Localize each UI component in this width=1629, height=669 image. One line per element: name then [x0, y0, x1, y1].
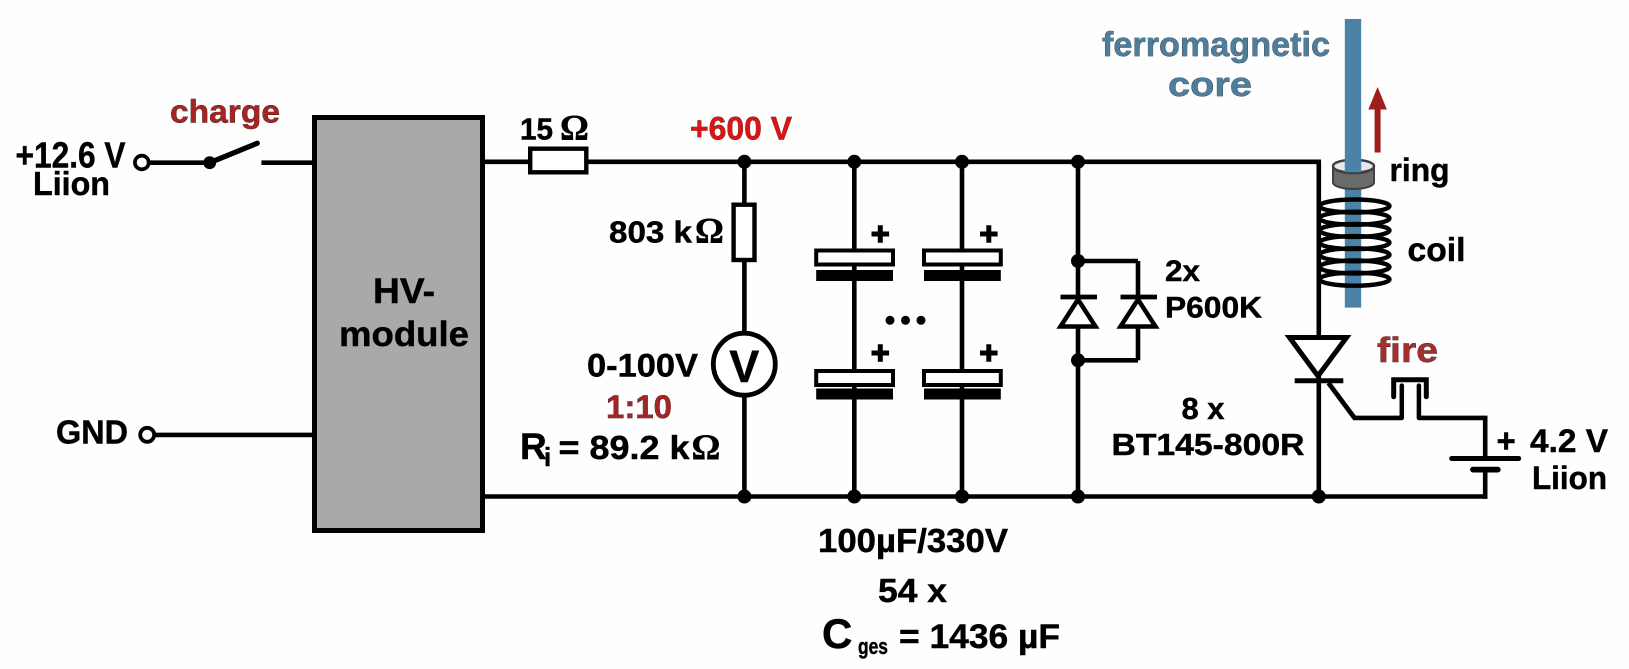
- terminal GND: [140, 428, 154, 442]
- svg-text:R: R: [520, 426, 547, 467]
- arrow up (launch direction): [1368, 87, 1387, 153]
- wire gate to button left contact: [1353, 416, 1402, 421]
- wire capacitor column 1: [852, 162, 857, 497]
- svg-text:V: V: [729, 341, 759, 392]
- resistor 15 Ohm: [530, 149, 586, 173]
- svg-text:803 k: 803 k: [609, 215, 693, 250]
- wire voltmeter branch vertical: [742, 162, 747, 497]
- switch S1 charge: [203, 143, 257, 169]
- wire thyristor branch vertical: [1317, 162, 1322, 497]
- svg-text:module: module: [339, 315, 469, 354]
- svg-text:C: C: [822, 610, 852, 657]
- svg-text:P600K: P600K: [1165, 292, 1262, 325]
- diode D1: [1061, 297, 1098, 327]
- node bottom rail cap2: [955, 490, 969, 504]
- svg-text:Ω: Ω: [695, 211, 724, 251]
- node top rail cap2: [955, 155, 969, 169]
- wire switch to HV-module: [261, 160, 316, 165]
- svg-text:coil: coil: [1408, 231, 1466, 268]
- HV-module U1: [315, 118, 483, 531]
- svg-text:4.2 V: 4.2 V: [1530, 423, 1609, 459]
- wire button right contact to battery: [1419, 418, 1485, 456]
- push button fire: [1394, 380, 1427, 418]
- capacitor C1: [816, 225, 893, 281]
- svg-text:GND: GND: [56, 414, 128, 451]
- thyristor Q1: [1290, 338, 1355, 418]
- svg-text:1:10: 1:10: [606, 389, 672, 425]
- svg-text:2x: 2x: [1165, 255, 1200, 288]
- svg-text:ges: ges: [858, 634, 888, 659]
- dots ellipsis: [886, 316, 926, 325]
- svg-text:BT145-800R: BT145-800R: [1112, 427, 1305, 462]
- svg-text:8 x: 8 x: [1182, 391, 1226, 426]
- wire top rail: [482, 160, 1321, 165]
- wire bottom rail: [482, 494, 1487, 499]
- label + 4.2 V Liion: [1497, 422, 1609, 496]
- svg-text:Liion: Liion: [1532, 460, 1607, 496]
- svg-text:i: i: [544, 442, 551, 472]
- ring top ellipse: [1333, 160, 1374, 173]
- svg-text:= 89.2 k: = 89.2 k: [559, 429, 691, 466]
- svg-text:charge: charge: [170, 94, 280, 130]
- label 8 x BT145-800R: [1112, 391, 1305, 462]
- label Ri = 89.2 kOhm: [520, 426, 720, 472]
- svg-text:core: core: [1168, 66, 1252, 104]
- node top rail diode branch: [1071, 155, 1085, 169]
- wire capacitor column 2: [960, 162, 965, 497]
- ring body: [1333, 167, 1374, 189]
- ferromagnetic core bar: [1345, 19, 1361, 308]
- svg-text:0-100V: 0-100V: [587, 348, 699, 384]
- svg-text:= 1436 µF: = 1436 µF: [899, 618, 1060, 656]
- svg-text:+600 V: +600 V: [690, 111, 793, 147]
- label ferromagnetic core: [1102, 26, 1330, 104]
- label Cges = 1436 uF: [822, 610, 1060, 659]
- svg-text:ring: ring: [1390, 152, 1450, 188]
- capacitor C3: [924, 225, 1001, 281]
- capacitor C2: [816, 344, 893, 399]
- svg-text:+: +: [1497, 422, 1516, 459]
- node B diode bottom: [1071, 353, 1085, 367]
- node bottom rail thyristor: [1312, 490, 1326, 504]
- svg-text:Ω: Ω: [692, 427, 721, 467]
- node bottom rail cap1: [847, 490, 861, 504]
- coil L1: [1320, 200, 1390, 286]
- battery BT1 4.2V: [1452, 459, 1519, 499]
- terminal +12.6V: [135, 156, 149, 170]
- diode D2: [1121, 297, 1158, 327]
- node top rail cap1: [847, 155, 861, 169]
- wire terminal to switch: [150, 160, 206, 165]
- wire diode right vertical: [1136, 261, 1141, 360]
- node A diode top: [1071, 254, 1085, 268]
- label 2x P600K: [1165, 255, 1262, 325]
- node bottom rail diode: [1071, 490, 1085, 504]
- svg-text:15: 15: [520, 112, 553, 147]
- svg-text:Liion: Liion: [33, 165, 110, 202]
- svg-text:fire: fire: [1377, 331, 1438, 370]
- svg-text:54 x: 54 x: [878, 573, 947, 610]
- voltmeter V1: [713, 333, 775, 395]
- wire diode top jog: [1078, 259, 1138, 264]
- node bottom rail voltmeter: [737, 490, 751, 504]
- label +12.6 V Liion: [16, 135, 126, 203]
- svg-text:ferromagnetic: ferromagnetic: [1102, 26, 1330, 64]
- resistor 803k: [734, 205, 755, 260]
- wire diode branch left vertical: [1076, 162, 1081, 497]
- wire GND to HV-module: [156, 433, 316, 438]
- capacitor C4: [924, 344, 1001, 399]
- node +600V: [737, 155, 751, 169]
- svg-text:Ω: Ω: [560, 108, 589, 148]
- wire diode bottom jog: [1078, 358, 1138, 363]
- svg-text:HV-: HV-: [373, 272, 435, 311]
- svg-text:100µF/330V: 100µF/330V: [818, 523, 1009, 560]
